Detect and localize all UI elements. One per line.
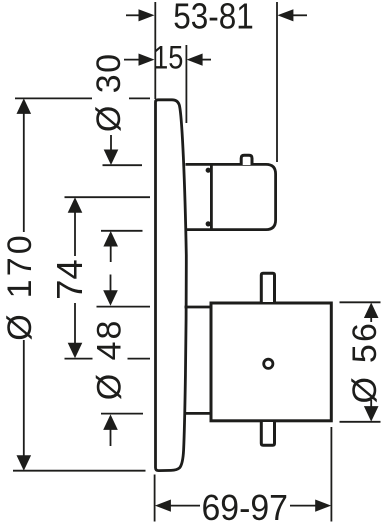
dimension O48 top tick xyxy=(97,306,151,308)
dimension O48 bottom tick xyxy=(101,413,143,415)
handle bottom stem xyxy=(261,422,274,445)
dimension O30 down arrow xyxy=(110,135,112,152)
dimension 74 line upper xyxy=(74,210,76,256)
dimension O170 bottom tick xyxy=(13,470,146,472)
dimension O30 up arrow xyxy=(110,246,112,262)
dimension 74 down arrow xyxy=(68,343,83,359)
thermostat knob body xyxy=(211,164,275,229)
square volume handle xyxy=(211,303,331,421)
dimension O170 line lower xyxy=(23,340,25,458)
dimension 69-97 left arrow xyxy=(168,505,200,507)
dimension O30 top tick xyxy=(103,164,143,166)
dimension O170 top tick xyxy=(15,97,92,99)
knob corner knuckle bottom xyxy=(206,221,211,226)
dimension 53-81 extension line left xyxy=(154,2,156,99)
svg-text:15: 15 xyxy=(153,41,183,77)
dimension 15 extension line right xyxy=(185,45,187,123)
svg-text:69-97: 69-97 xyxy=(201,488,288,528)
dimension 69-97 extension line left xyxy=(154,475,156,522)
dimension O30 bottom tick xyxy=(101,230,143,232)
svg-text:74: 74 xyxy=(49,259,90,300)
svg-text:Ø 56: Ø 56 xyxy=(346,321,384,404)
handle center screw circle xyxy=(264,359,273,368)
dimension O56 line lower xyxy=(370,400,372,410)
svg-text:Ø 48: Ø 48 xyxy=(90,319,128,401)
dimension 74 line lower xyxy=(74,303,76,346)
dimension 69-97 right arrow xyxy=(290,505,318,507)
lower sleeve collar top edge xyxy=(185,306,210,309)
dimension O48 down arrow xyxy=(110,275,112,293)
dimension O170 down arrow xyxy=(17,455,32,471)
svg-text:Ø 30: Ø 30 xyxy=(90,52,128,132)
knob corner knuckle top xyxy=(206,168,211,173)
dimension 53-81 right arrow xyxy=(291,14,307,16)
upper sleeve collar bottom edge xyxy=(186,228,211,231)
escutcheon plate (side profile) xyxy=(156,100,187,471)
dimension 53-81 extension line right xyxy=(276,2,278,162)
dimension O56 top tick xyxy=(340,301,381,303)
dimension O56 line upper xyxy=(370,315,372,322)
dimension 74 up arrow xyxy=(68,197,83,213)
dimension O170 line upper xyxy=(23,111,25,232)
dimension O56 bottom tick xyxy=(340,421,381,423)
dimension O170 up arrow xyxy=(17,98,32,114)
dimension 74 bottom extension line xyxy=(65,358,93,360)
svg-text:53-81: 53-81 xyxy=(173,0,254,37)
upper sleeve collar top edge xyxy=(186,163,211,166)
dimension O56 up arrow xyxy=(364,303,379,319)
dimension O48 up arrow xyxy=(110,429,112,446)
dimension 15 right arrow xyxy=(200,59,211,61)
handle top stem xyxy=(261,273,274,302)
knob top tab xyxy=(241,155,252,165)
svg-text:Ø 170: Ø 170 xyxy=(1,232,39,341)
dimension 74 top extension line xyxy=(65,196,151,198)
dimension 53-81 left arrow xyxy=(126,14,141,16)
dimension 69-97 extension line right xyxy=(330,427,332,522)
dimension O56 down arrow xyxy=(364,406,379,422)
dimension 15 left arrow xyxy=(124,59,141,61)
lower sleeve collar bottom edge xyxy=(184,412,210,415)
